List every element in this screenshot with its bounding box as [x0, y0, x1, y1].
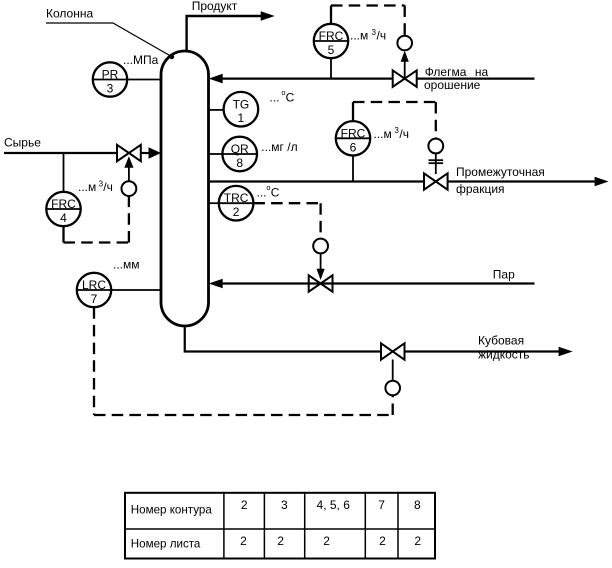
label ...мг/л — [261, 140, 297, 154]
actuator circle steam valve — [313, 239, 328, 254]
label орошение — [424, 78, 481, 92]
label ...м3/ч FRC6 — [374, 126, 409, 141]
actuator circle feed valve — [121, 181, 136, 196]
actuator circle bottoms valve — [385, 381, 400, 396]
instrument TG1 — [224, 92, 259, 127]
svg-text:C: C — [271, 185, 280, 199]
svg-text:6: 6 — [350, 140, 357, 154]
instrument LRC7 — [77, 273, 111, 307]
svg-text:...м: ...м — [78, 180, 96, 194]
label ...м3/ч FRC5 — [350, 28, 386, 43]
svg-text:FRC: FRC — [319, 29, 344, 43]
svg-text:2: 2 — [240, 534, 247, 548]
instrument FRC5 — [314, 24, 348, 58]
label Промежуточная — [456, 165, 545, 179]
svg-text:Пар: Пар — [493, 268, 515, 282]
reflux line (Флегма на орошение) — [209, 74, 535, 84]
svg-text:2: 2 — [414, 534, 421, 548]
instrument TRC2 — [219, 186, 254, 221]
svg-text:Сырье: Сырье — [4, 135, 41, 149]
svg-text:FRC: FRC — [341, 126, 366, 140]
svg-text:2: 2 — [233, 205, 240, 219]
feed line (Сырье) — [4, 147, 161, 158]
svg-text:...: ... — [270, 90, 280, 104]
label жидкость — [478, 348, 530, 362]
wire TRC2 to column — [209, 202, 219, 204]
instrument QR8 — [222, 137, 257, 172]
label ...°C TRC — [257, 183, 280, 199]
svg-text:QR: QR — [231, 142, 249, 156]
svg-text:3: 3 — [107, 82, 114, 96]
svg-text:TG: TG — [233, 97, 250, 111]
wire FRC5 to reflux line — [330, 58, 332, 78]
table row2 values — [240, 534, 421, 548]
label фракция — [456, 182, 505, 196]
valve on reflux line — [393, 70, 417, 86]
table row2 label — [131, 538, 201, 551]
label Пар — [493, 268, 515, 282]
label Сырье — [4, 135, 41, 149]
svg-text:фракция: фракция — [456, 182, 505, 196]
svg-text:PR: PR — [102, 68, 119, 82]
bottoms valve stem — [392, 360, 394, 381]
leader line to column — [46, 23, 174, 59]
svg-text:Номер контура: Номер контура — [131, 503, 213, 516]
instrument FRC6 — [336, 121, 370, 155]
svg-text:2: 2 — [379, 534, 386, 548]
actuator stem with up arrow — [401, 51, 409, 79]
table row1 label — [131, 503, 213, 516]
bottoms outlet line — [185, 326, 573, 356]
instrument PR3 — [93, 62, 127, 96]
svg-text:орошение: орошение — [424, 78, 481, 92]
svg-text:/ч: /ч — [377, 29, 387, 43]
signal TRC2 to steam valve (dashed) — [253, 203, 320, 238]
svg-text:4, 5, 6: 4, 5, 6 — [317, 498, 351, 512]
svg-text:TRC: TRC — [224, 191, 249, 205]
svg-text:4: 4 — [60, 211, 67, 225]
svg-text:...м: ...м — [350, 29, 368, 43]
actuator circle fraction valve — [428, 139, 443, 154]
svg-text:Флегма: Флегма — [425, 65, 467, 79]
svg-text:FRC: FRC — [51, 197, 76, 211]
svg-text:2: 2 — [277, 534, 284, 548]
svg-text:...МПа: ...МПа — [123, 53, 159, 67]
product line (Продукт) — [187, 11, 275, 51]
svg-text:...мг /л: ...мг /л — [261, 140, 297, 154]
valve on bottoms line — [381, 343, 405, 359]
signal FRC4 to feed valve (dashed) — [64, 196, 129, 243]
svg-text:2: 2 — [241, 498, 248, 512]
svg-text:...м: ...м — [374, 127, 392, 141]
label Кубовая — [478, 334, 524, 348]
svg-text:Колонна: Колонна — [46, 7, 93, 21]
svg-text:8: 8 — [236, 156, 243, 170]
label ...°C TG — [270, 88, 295, 104]
svg-text:жидкость: жидкость — [478, 348, 530, 362]
svg-text:Кубовая: Кубовая — [478, 334, 524, 348]
valve on feed line — [117, 145, 141, 161]
svg-text:3: 3 — [281, 498, 288, 512]
svg-text:2: 2 — [323, 534, 330, 548]
signal FRC6 to fraction valve (dashed) — [353, 102, 436, 139]
signal LRC7 to bottoms valve (dashed) — [94, 307, 393, 415]
svg-text:...мм: ...мм — [113, 258, 140, 272]
valve on steam line — [309, 275, 333, 291]
instrument FRC4 — [46, 192, 80, 226]
wire TG1 to column — [209, 109, 224, 111]
actuator stem with diaphragm (double line) — [429, 153, 444, 174]
intermediate fraction line — [209, 177, 609, 187]
svg-text:5: 5 — [328, 43, 335, 57]
wire QR8 to column — [209, 153, 223, 155]
label Продукт — [192, 0, 238, 13]
label Флегма на — [425, 65, 489, 79]
svg-text:7: 7 — [378, 498, 385, 512]
svg-text:C: C — [286, 90, 295, 104]
steam line (Пар) — [209, 279, 535, 289]
wire PR3 to column — [127, 79, 161, 81]
actuator circle reflux valve — [397, 36, 412, 51]
wire LRC7 to column — [111, 289, 161, 291]
svg-text:...: ... — [257, 185, 267, 199]
table row1 values — [241, 498, 421, 512]
svg-text:LRC: LRC — [82, 278, 106, 292]
label ...мм — [113, 258, 140, 272]
feed valve actuator stem with up arrow — [124, 156, 133, 181]
column vessel — [161, 51, 209, 326]
valve on fraction line — [424, 173, 448, 189]
svg-text:Продукт: Продукт — [192, 0, 238, 13]
svg-text:1: 1 — [238, 111, 245, 125]
svg-text:8: 8 — [414, 498, 421, 512]
wire FRC6 to fraction line — [352, 156, 354, 182]
label ...МПа — [123, 53, 159, 67]
label Колонна — [46, 7, 93, 21]
label ...м3/ч FRC4 — [78, 179, 113, 194]
table — [125, 493, 435, 559]
actuator stem with down arrow — [317, 253, 325, 280]
svg-text:Номер листа: Номер листа — [131, 538, 201, 551]
svg-text:Промежуточная: Промежуточная — [456, 165, 545, 179]
signal FRC5 to reflux valve (dashed) — [331, 6, 405, 36]
svg-text:7: 7 — [91, 292, 98, 306]
wire feed line to FRC4 — [63, 153, 65, 192]
svg-text:на: на — [475, 65, 489, 79]
svg-text:/ч: /ч — [399, 127, 409, 141]
svg-text:/ч: /ч — [103, 180, 113, 194]
